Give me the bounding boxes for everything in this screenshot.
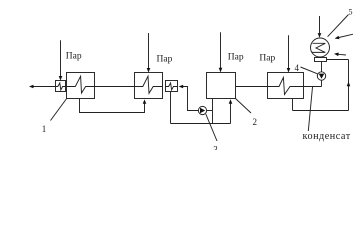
wire pump 2 suction: [321, 62, 323, 72]
wire condenser box to barometric leg: [327, 59, 349, 61]
leader to label 2: [236, 99, 252, 114]
svg-text:Пар: Пар: [228, 53, 244, 63]
condenser coil: [312, 43, 326, 52]
wire product out left: [33, 86, 56, 88]
wire pump 2 discharge down: [321, 80, 323, 86]
svg-text:4: 4: [295, 63, 300, 73]
svg-text:1: 1: [42, 124, 47, 134]
svg-text:2: 2: [253, 117, 258, 127]
heater (small box) of evaporator 2: [166, 81, 178, 92]
svg-text:конденсат: конденсат: [303, 131, 351, 142]
wire riser into vessel 3 bottom: [212, 99, 214, 124]
wire to heater 2 and down to pump 1: [183, 87, 198, 111]
wire drop from vessel 1 bottom: [80, 99, 145, 113]
wire vessel 4 outlet to pump 2 drop: [304, 86, 322, 88]
leader from label 4 to pump 2: [301, 67, 318, 74]
evaporator vessel 4: [268, 73, 304, 99]
arrow up into vessel 2 bottom: [143, 99, 147, 103]
water arrow lower right: [339, 53, 347, 56]
pump P1: [198, 106, 206, 114]
pump P2: [317, 72, 325, 80]
leader to label 5: [328, 15, 349, 37]
wire steam line 4: [288, 35, 290, 68]
wire bottom run to vessel 3: [171, 123, 231, 125]
wire riser with arrow into vessel 3: [230, 104, 232, 124]
heating coil in heater 1: [56, 83, 66, 90]
leader to label конденсат: [308, 87, 312, 131]
wire condensate from heater 2 down: [170, 92, 172, 124]
wire vapor into condenser top: [319, 16, 321, 33]
arrow into vessel 2: [147, 68, 151, 73]
wire steam line 1: [60, 40, 62, 76]
leader to label 1: [51, 99, 67, 121]
wire vessel 1 to vessel 2: [95, 86, 135, 88]
heating coil in vessel 1: [67, 76, 95, 93]
svg-text:3: 3: [213, 145, 218, 151]
arrow into heater 2 from right: [179, 85, 184, 89]
wire vessel 3 to vessel 4: [236, 86, 268, 88]
arrow into vessel 3: [219, 68, 223, 73]
arrow into vessel 4: [287, 68, 291, 73]
heating coil in vessel 2: [135, 76, 163, 93]
arrowhead product out: [29, 85, 34, 89]
svg-text:5: 5: [349, 8, 353, 17]
evaporator vessel 3: [207, 73, 236, 99]
wire riser from vessel 4 bottom: [292, 99, 294, 111]
wire steam line 2: [148, 33, 150, 68]
condenser bottom box: [315, 58, 327, 62]
wire steam line 3: [220, 32, 222, 68]
water arrow upper right: [339, 34, 353, 37]
heating coil in heater 2: [166, 83, 178, 90]
arrow into condenser: [318, 33, 322, 38]
wire barometric leg down: [348, 60, 350, 111]
wire pump 1 outlet: [207, 110, 213, 112]
arrow into heater 1: [59, 76, 63, 81]
leader to label 3: [206, 114, 217, 141]
svg-text:Пар: Пар: [66, 52, 82, 62]
heater (small box) of evaporator 1: [56, 81, 66, 92]
evaporator vessel 1: [67, 73, 95, 99]
svg-text:Пар: Пар: [259, 53, 275, 63]
condenser circle 5: [311, 38, 330, 57]
arrow up on barometric leg: [347, 82, 351, 87]
evaporator vessel 2: [135, 73, 163, 99]
heating coil in vessel 4: [268, 78, 304, 95]
wire bottom run: [293, 110, 349, 112]
svg-text:Пар: Пар: [157, 54, 173, 64]
